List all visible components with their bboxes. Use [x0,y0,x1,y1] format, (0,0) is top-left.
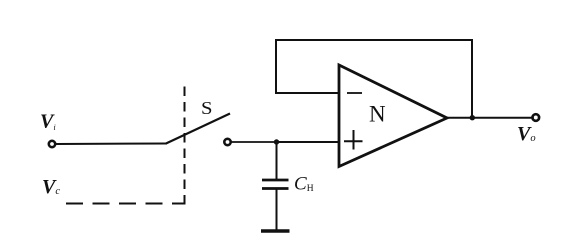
wire op-amp minus input stub [276,92,339,94]
switch S arm [166,114,230,144]
wire op-amp output [446,117,533,119]
svg-text:S: S [201,98,213,118]
wire node A to op-amp + input [277,141,340,143]
svg-text:Vo: Vo [517,123,536,145]
dashed control line: vertical up to switch [184,86,186,205]
wire input to switch pivot [56,143,167,146]
wire capacitor to ground [276,190,278,231]
op-amp plus marker [344,130,363,150]
wire node A down to capacitor [276,142,278,180]
capacitor CH bottom plate [262,187,289,190]
svg-text:N: N [369,102,386,127]
op-amp N triangle [339,65,447,167]
node output junction [470,115,475,120]
ground [261,229,290,232]
wire feedback top horizontal [275,39,472,41]
terminal Vi (input) [49,141,55,147]
op-amp minus marker [347,92,362,94]
svg-text:CH: CH [294,174,314,195]
svg-text:Vc: Vc [42,176,60,198]
wire feedback right vertical [471,39,473,118]
terminal Vo (output) [533,114,540,121]
capacitor CH top plate [262,179,289,182]
wire switch contact to node A [232,141,277,143]
switch S fixed contact [224,139,230,145]
svg-text:Vi: Vi [40,111,56,133]
dashed control line: horizontal from Vc [66,203,185,205]
wire feedback left vertical [275,39,277,94]
node A junction [274,139,279,144]
